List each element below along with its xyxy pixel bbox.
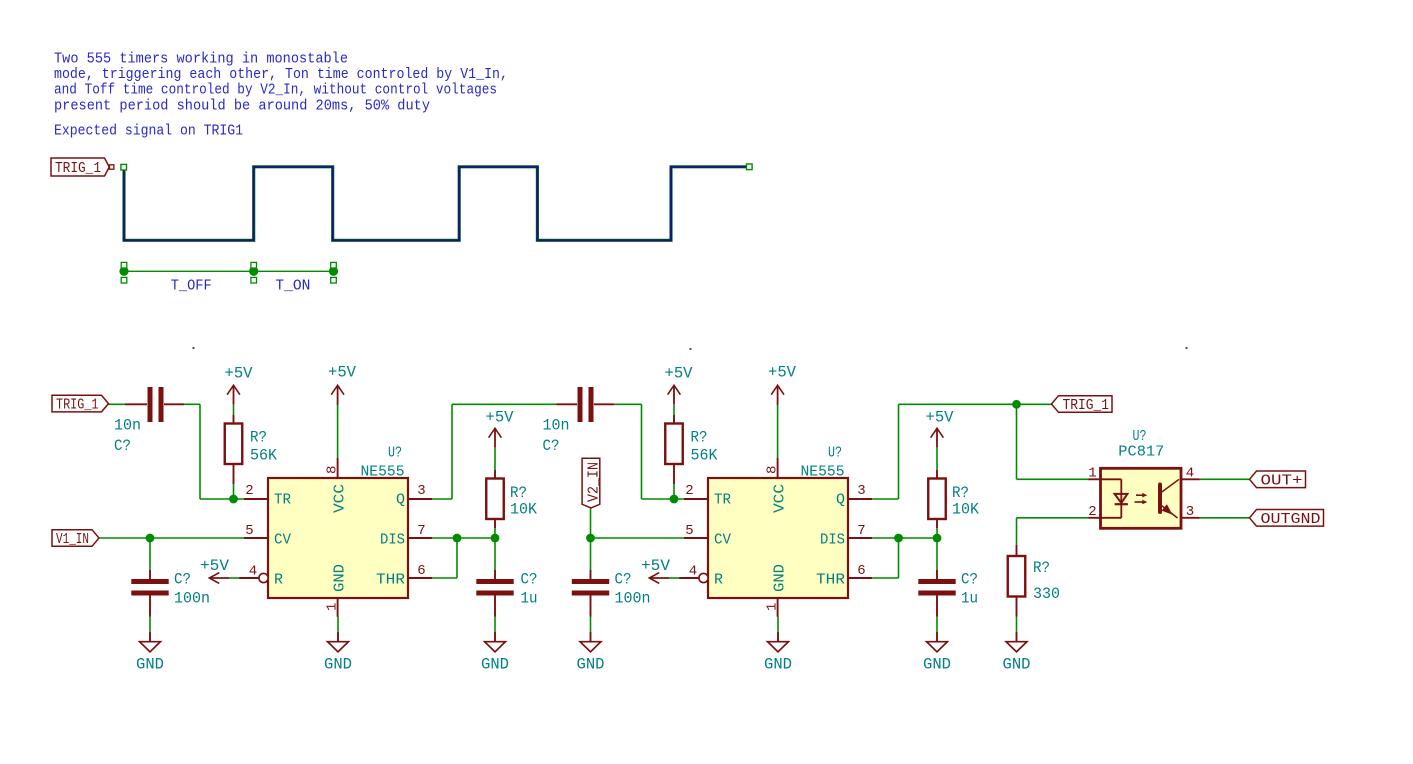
svg-text:V2_IN: V2_IN (585, 462, 602, 502)
svg-text:1: 1 (325, 603, 341, 611)
svg-text:TR: TR (714, 492, 731, 509)
svg-text:6: 6 (417, 563, 425, 579)
svg-text:8: 8 (765, 466, 781, 474)
svg-text:6: 6 (857, 563, 865, 579)
svg-text:1: 1 (1088, 466, 1096, 482)
svg-text:C?: C? (543, 437, 560, 455)
svg-text:U?: U? (388, 445, 402, 462)
svg-text:GND: GND (324, 656, 352, 674)
svg-text:100n: 100n (174, 590, 210, 608)
svg-text:3: 3 (857, 483, 865, 499)
svg-text:+5V: +5V (665, 365, 693, 383)
svg-text:100n: 100n (615, 590, 651, 608)
svg-text:R?: R? (250, 429, 267, 447)
svg-text:1: 1 (765, 603, 781, 611)
svg-text:R: R (274, 572, 283, 589)
svg-text:TRIG_1: TRIG_1 (55, 160, 101, 177)
svg-text:R?: R? (691, 429, 708, 447)
svg-text:CV: CV (714, 532, 731, 549)
svg-text:NE555: NE555 (801, 464, 845, 481)
svg-text:+5V: +5V (200, 557, 229, 575)
svg-text:Q: Q (836, 492, 845, 509)
svg-text:+5V: +5V (768, 364, 796, 382)
svg-text:NE555: NE555 (361, 464, 405, 481)
svg-text:56K: 56K (691, 447, 718, 465)
svg-text:2: 2 (245, 483, 253, 499)
svg-text:DIS: DIS (820, 532, 845, 549)
svg-text:Expected signal on TRIG1: Expected signal on TRIG1 (54, 123, 243, 140)
svg-text:2: 2 (685, 483, 693, 499)
svg-text:GND: GND (481, 656, 509, 674)
svg-text:7: 7 (857, 523, 865, 539)
svg-text:4: 4 (689, 564, 697, 580)
svg-text:C?: C? (174, 571, 191, 589)
svg-text:+5V: +5V (225, 365, 253, 383)
svg-text:R?: R? (510, 484, 527, 502)
svg-text:56K: 56K (250, 447, 277, 465)
svg-text:GND: GND (332, 564, 349, 592)
svg-text:10K: 10K (510, 501, 537, 519)
svg-text:V1_IN: V1_IN (56, 531, 89, 548)
svg-text:OUT+: OUT+ (1261, 472, 1303, 489)
svg-text:5: 5 (245, 523, 253, 539)
svg-text:VCC: VCC (332, 484, 349, 513)
svg-text:R?: R? (952, 484, 969, 502)
svg-text:TR: TR (274, 492, 291, 509)
svg-text:330: 330 (1033, 585, 1060, 603)
svg-text:10K: 10K (952, 501, 979, 519)
svg-text:1u: 1u (961, 590, 978, 608)
svg-text:U?: U? (1133, 428, 1147, 445)
svg-text:GND: GND (577, 656, 605, 674)
svg-text:1u: 1u (521, 590, 538, 608)
svg-text:GND: GND (136, 656, 164, 674)
svg-text:CV: CV (274, 532, 291, 549)
svg-text:T_OFF: T_OFF (171, 278, 212, 295)
svg-text:GND: GND (764, 656, 792, 674)
svg-text:2: 2 (1088, 504, 1096, 520)
svg-text:GND: GND (923, 656, 951, 674)
svg-text:10n: 10n (543, 417, 570, 435)
svg-text:TRIG_1: TRIG_1 (56, 397, 99, 414)
svg-text:DIS: DIS (380, 532, 405, 549)
svg-text:+5V: +5V (641, 557, 670, 575)
svg-text:T_ON: T_ON (275, 278, 310, 295)
svg-text:present period should be aroun: present period should be around 20ms, 50… (54, 98, 430, 115)
svg-text:THR: THR (816, 572, 845, 589)
svg-text:3: 3 (417, 483, 425, 499)
svg-text:PC817: PC817 (1118, 444, 1164, 461)
svg-text:Q: Q (396, 492, 405, 509)
svg-text:GND: GND (1003, 656, 1031, 674)
svg-text:Two 555 timers working in mono: Two 555 timers working in monostable (54, 51, 348, 68)
svg-text:VCC: VCC (772, 484, 789, 513)
svg-text:+5V: +5V (328, 364, 356, 382)
svg-text:3: 3 (1186, 504, 1194, 520)
svg-text:R: R (714, 572, 723, 589)
svg-text:4: 4 (1186, 466, 1194, 482)
svg-text:+5V: +5V (486, 409, 514, 427)
svg-text:C?: C? (521, 571, 538, 589)
svg-text:U?: U? (828, 445, 842, 462)
svg-text:OUTGND: OUTGND (1261, 511, 1321, 528)
svg-text:TRIG_1: TRIG_1 (1063, 397, 1110, 414)
svg-text:THR: THR (376, 572, 405, 589)
svg-text:+5V: +5V (926, 409, 954, 427)
svg-text:10n: 10n (114, 417, 141, 435)
svg-text:R?: R? (1033, 559, 1050, 577)
svg-text:mode, triggering each other, T: mode, triggering each other, Ton time co… (54, 66, 508, 83)
svg-text:C?: C? (615, 571, 632, 589)
svg-text:5: 5 (685, 523, 693, 539)
svg-text:4: 4 (249, 564, 257, 580)
svg-text:GND: GND (772, 564, 789, 592)
svg-text:8: 8 (325, 466, 341, 474)
svg-text:C?: C? (114, 437, 131, 455)
svg-text:and Toff time controled by V2_: and Toff time controled by V2_In, withou… (54, 82, 497, 99)
svg-text:7: 7 (417, 523, 425, 539)
svg-text:C?: C? (961, 571, 978, 589)
